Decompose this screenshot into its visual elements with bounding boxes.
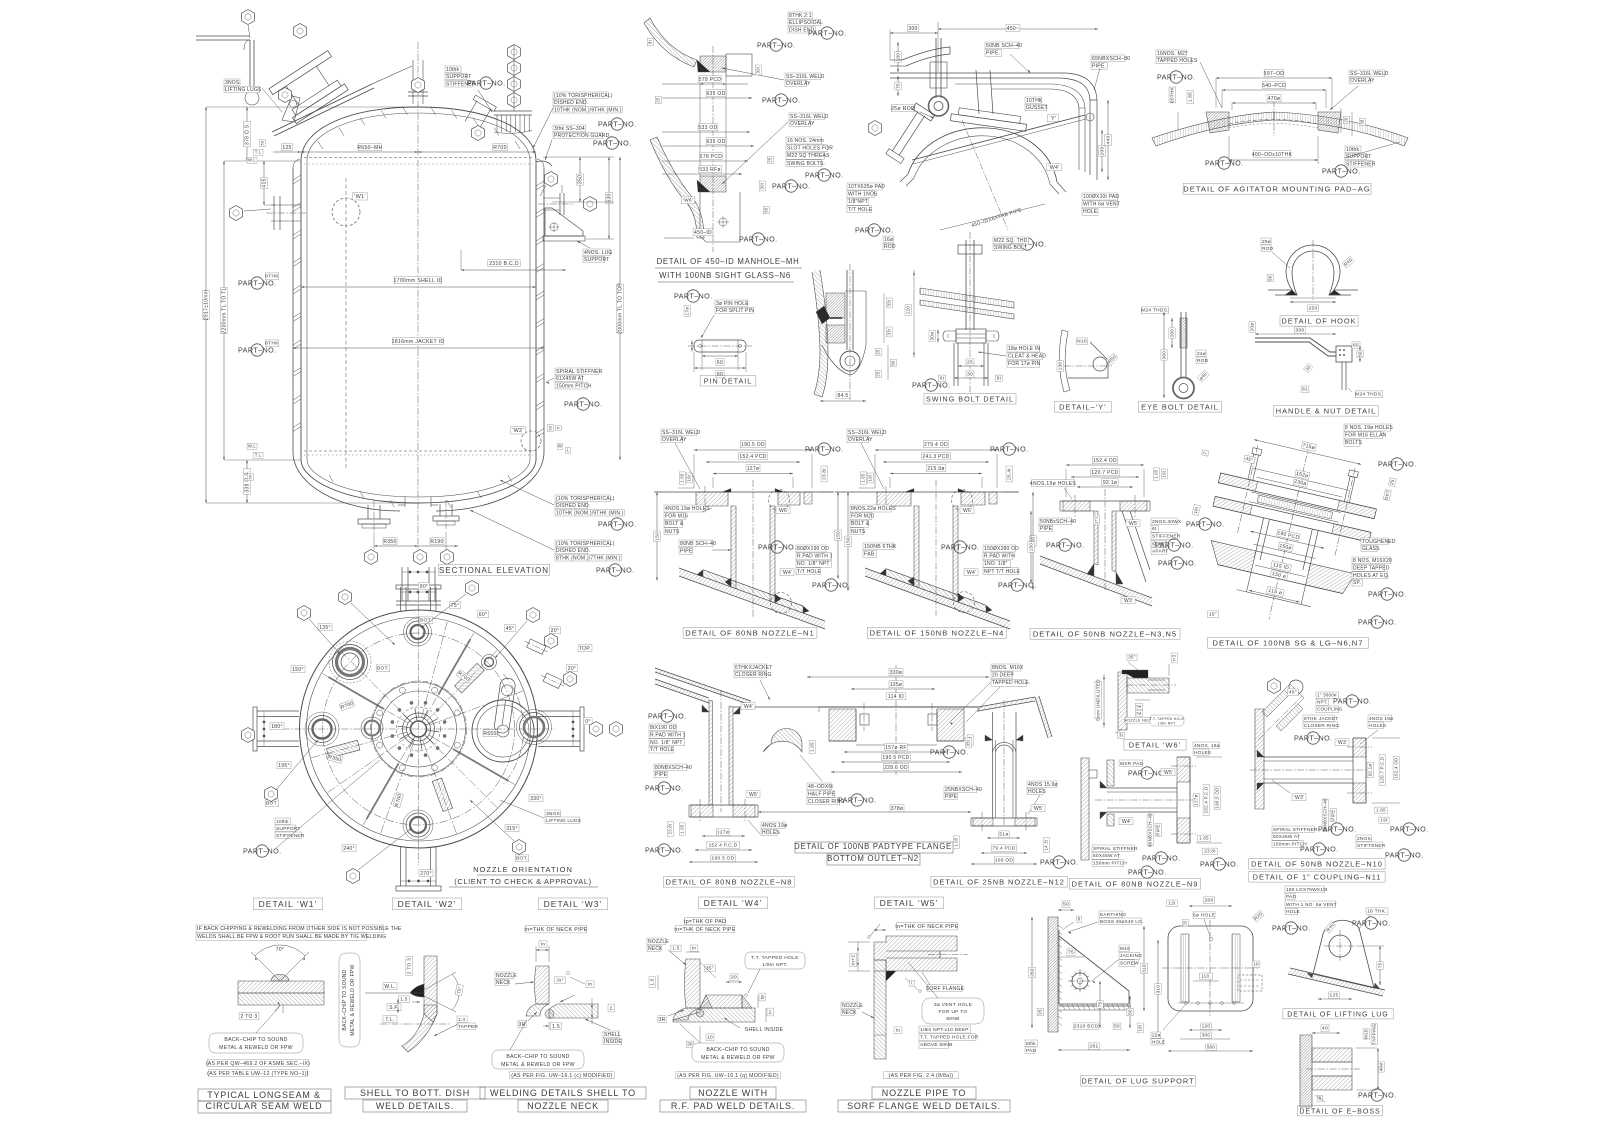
nozzle N4 detail bbox=[835, 429, 1037, 638]
tn box w5 bbox=[894, 1027, 902, 1034]
svg-text:190.5 OD: 190.5 OD bbox=[1215, 787, 1220, 808]
70 arc w2 bbox=[452, 974, 459, 1010]
svg-text:W.L: W.L bbox=[248, 444, 256, 449]
dim R700 top bbox=[493, 144, 507, 151]
svg-text:30t: 30t bbox=[760, 182, 765, 189]
svg-text:35°: 35° bbox=[1128, 655, 1136, 660]
svg-text:120.7 PCD: 120.7 PCD bbox=[1091, 470, 1118, 476]
svg-text:HANDLE & NUT DETAIL: HANDLE & NUT DETAIL bbox=[1276, 407, 1376, 416]
svg-text:Js″: Js″ bbox=[556, 978, 563, 984]
pipe walls hatched bbox=[914, 506, 919, 588]
svg-text:1:4: 1:4 bbox=[458, 1017, 465, 1023]
svg-text:DISHED END.: DISHED END. bbox=[554, 100, 588, 106]
eb wall bbox=[1300, 1035, 1312, 1107]
eb title bbox=[1138, 402, 1221, 413]
svg-text:540–PCD: 540–PCD bbox=[1262, 83, 1286, 89]
w6 title bbox=[1124, 740, 1186, 751]
cover plate outline bbox=[845, 290, 866, 292]
1.5 left w4 bbox=[649, 977, 656, 988]
svg-text:1.65: 1.65 bbox=[1199, 836, 1209, 841]
center hub circles bbox=[411, 721, 427, 737]
pad band bbox=[703, 570, 803, 606]
svg-text:80NBXSCH–40: 80NBXSCH–40 bbox=[1148, 813, 1153, 847]
svg-text:PIPE.: PIPE. bbox=[986, 51, 1000, 57]
svg-text:tp: tp bbox=[760, 995, 765, 1000]
beam top bbox=[400, 587, 402, 611]
svg-text:PART–NO.: PART–NO. bbox=[739, 235, 777, 244]
svg-text:PART–NO.: PART–NO. bbox=[243, 847, 281, 856]
svg-text:75: 75 bbox=[1068, 950, 1074, 956]
svg-text:OVERLAY: OVERLAY bbox=[786, 81, 811, 87]
n9 flange bbox=[1176, 782, 1178, 843]
w6 35 label bbox=[1127, 654, 1137, 660]
vessel top dished head bbox=[301, 107, 536, 161]
tp dim w4 bbox=[759, 993, 766, 1001]
svg-text:‘W6’: ‘W6’ bbox=[683, 198, 694, 204]
svg-text:tp=THK OF PAD: tp=THK OF PAD bbox=[684, 919, 726, 925]
svg-text:440: 440 bbox=[1106, 136, 1112, 145]
n1 pad note bbox=[796, 545, 826, 552]
nozzle N9 detail bbox=[1070, 742, 1239, 889]
n10 jacket wall bbox=[1255, 709, 1264, 809]
svg-text:1.65: 1.65 bbox=[1154, 469, 1159, 479]
jacket id dim bbox=[392, 338, 445, 345]
svg-text:R.PAD WITH: R.PAD WITH bbox=[984, 554, 1015, 560]
svg-text:W: W bbox=[558, 444, 562, 449]
n3 w5 label bbox=[1126, 520, 1140, 527]
sight glass SG LG detail bbox=[1155, 424, 1416, 648]
dim 350 right bbox=[579, 157, 581, 202]
svg-text:OVERLAY: OVERLAY bbox=[790, 121, 815, 127]
lsp 120 bbox=[1201, 1023, 1212, 1030]
W6 dashed circle bbox=[769, 490, 790, 511]
svg-text:PART–NO.: PART–NO. bbox=[838, 796, 876, 805]
svg-text:t=3: t=3 bbox=[1172, 654, 1177, 661]
svg-text:DEEP TAPPED: DEEP TAPPED bbox=[1353, 565, 1390, 571]
svg-text:LIFTING LUGS: LIFTING LUGS bbox=[546, 818, 581, 824]
svg-text:tn=THK OF NECK PIPE: tn=THK OF NECK PIPE bbox=[524, 927, 587, 933]
svg-text:R.PAD WITH 1: R.PAD WITH 1 bbox=[650, 732, 686, 738]
svg-text:8NOS.22ø HOLES: 8NOS.22ø HOLES bbox=[851, 506, 896, 512]
svg-text:8THK (NOM.)/7THK (MIN.): 8THK (NOM.)/7THK (MIN.) bbox=[556, 555, 621, 561]
degree labels bbox=[418, 583, 429, 590]
pin detail bbox=[674, 290, 756, 386]
svg-text:35°: 35° bbox=[706, 966, 714, 972]
svg-text:2000mm TL TO TOP: 2000mm TL TO TOP bbox=[618, 283, 624, 334]
davit hook circle bbox=[245, 91, 259, 105]
svg-text:281: 281 bbox=[1090, 1044, 1099, 1050]
1.5 label w2 bbox=[399, 996, 410, 1003]
W1 nozzle dashed circle bbox=[332, 198, 360, 226]
svg-text:HOLE: HOLE bbox=[1152, 1039, 1165, 1044]
ll weld tris bbox=[1307, 973, 1313, 978]
svg-text:tn: tn bbox=[588, 982, 593, 988]
bottom balloons bbox=[365, 550, 378, 565]
svg-text:92.1ø: 92.1ø bbox=[1103, 480, 1117, 486]
sg gasket lines bbox=[1251, 492, 1341, 513]
n3 shell slant bbox=[1040, 556, 1152, 598]
svg-text:‘W6’: ‘W6’ bbox=[778, 508, 789, 514]
sg top bolts bbox=[1248, 454, 1259, 480]
eb eye bbox=[1173, 378, 1194, 399]
svg-text:10THK (NOM.)/9THK (MIN.): 10THK (NOM.)/9THK (MIN.) bbox=[556, 510, 624, 516]
flange block w5 bbox=[874, 936, 957, 971]
vent hole note bbox=[922, 998, 984, 1024]
sg glass bbox=[1257, 495, 1333, 519]
shell plate w4 bbox=[673, 1008, 755, 1022]
svg-text:SS–316L WELD: SS–316L WELD bbox=[790, 114, 829, 120]
svg-text:6t: 6t bbox=[1152, 526, 1157, 532]
svg-text:110.: 110. bbox=[1201, 974, 1211, 979]
svg-text:20ø: 20ø bbox=[1250, 323, 1255, 332]
svg-text:‘W3’: ‘W3’ bbox=[1337, 740, 1348, 746]
dim 630 right bbox=[608, 157, 610, 239]
n10 holes note bbox=[1368, 715, 1392, 721]
svg-text:‘W5’: ‘W5’ bbox=[1163, 770, 1174, 776]
svg-text:1816mm JACKET ID: 1816mm JACKET ID bbox=[392, 339, 445, 345]
svg-text:SWING BOLT: SWING BOLT bbox=[994, 245, 1027, 251]
w6 3t label bbox=[1117, 732, 1124, 738]
svg-text:23.8t: 23.8t bbox=[1204, 849, 1216, 854]
tp tn legend w4 bbox=[684, 918, 726, 925]
shell plate w3 bbox=[549, 1004, 598, 1018]
svg-text:PART–NO.: PART–NO. bbox=[1157, 73, 1195, 82]
shell slant band bbox=[679, 568, 825, 621]
svg-text:R190: R190 bbox=[430, 539, 443, 545]
n9 title bbox=[1070, 879, 1201, 890]
n3 flange bbox=[1060, 500, 1150, 502]
vessel sectional elevation bbox=[196, 10, 636, 606]
n10 stiffener note bbox=[1356, 835, 1372, 841]
svg-text:T/T HOLE: T/T HOLE bbox=[650, 747, 674, 753]
ag center dash bbox=[1229, 120, 1318, 125]
n8 small dims bbox=[667, 822, 673, 837]
svg-text:3R: 3R bbox=[659, 1017, 666, 1023]
n12 35t bbox=[965, 738, 971, 748]
svg-text:150ØX280 OD: 150ØX280 OD bbox=[984, 546, 1019, 552]
svg-text:578 PCD: 578 PCD bbox=[700, 154, 722, 160]
svg-text:PART–NO.: PART–NO. bbox=[598, 120, 636, 129]
t dim w4 bbox=[767, 1008, 774, 1016]
svg-text:NOZZLE ORIENTATION: NOZZLE ORIENTATION bbox=[473, 865, 573, 874]
n10 pipe note rot bbox=[1322, 798, 1328, 832]
y labels bbox=[1077, 338, 1088, 345]
svg-text:50NBxSCH–40: 50NBxSCH–40 bbox=[1040, 519, 1076, 525]
n9 w4 label bbox=[1119, 818, 1133, 825]
svg-text:1/8”NPT: 1/8”NPT bbox=[848, 199, 868, 205]
bolt hole dashed lines bbox=[704, 486, 706, 511]
svg-text:SUPPORT: SUPPORT bbox=[1346, 154, 1371, 160]
svg-text:60°: 60° bbox=[479, 612, 487, 618]
svg-text:HOLES: HOLES bbox=[1194, 750, 1211, 756]
svg-text:BOLT &: BOLT & bbox=[851, 521, 870, 527]
svg-text:DETAIL OF AGITATOR MOUNTING PA: DETAIL OF AGITATOR MOUNTING PAD–AG bbox=[1183, 185, 1370, 194]
svg-text:SP.: SP. bbox=[1353, 580, 1361, 586]
svg-text:1.5: 1.5 bbox=[552, 1024, 560, 1030]
svg-text:80NBXSCH–40: 80NBXSCH–40 bbox=[655, 765, 692, 771]
detail W5 title bbox=[874, 897, 943, 909]
svg-text:PIPE: PIPE bbox=[680, 549, 693, 555]
svg-text:ROD: ROD bbox=[1197, 358, 1209, 364]
vessel shell walls bbox=[300, 161, 302, 460]
svg-text:1/8in NPT.: 1/8in NPT. bbox=[1158, 722, 1177, 726]
dim 378 OS bbox=[246, 107, 248, 161]
n2 centerline bbox=[895, 665, 897, 775]
dim R190 bottom bbox=[430, 538, 444, 545]
svg-text:LIFTING LUGS: LIFTING LUGS bbox=[225, 87, 262, 93]
n12 pipe note bbox=[944, 786, 977, 793]
svg-text:65NBXSCH–80: 65NBXSCH–80 bbox=[1092, 56, 1130, 62]
svg-text:DETAIL OF E–BOSS: DETAIL OF E–BOSS bbox=[1299, 1109, 1380, 1116]
svg-text:NECK: NECK bbox=[842, 1010, 857, 1016]
svg-text:SLOT HOLES FOR: SLOT HOLES FOR bbox=[787, 146, 833, 152]
jacket walls bbox=[292, 168, 294, 452]
svg-text:10thk: 10thk bbox=[446, 67, 460, 73]
lsp dims bbox=[1167, 900, 1178, 907]
svg-text:25: 25 bbox=[967, 360, 973, 366]
top liquid level line bbox=[304, 157, 533, 159]
svg-text:0°: 0° bbox=[585, 719, 590, 725]
svg-text:DETAIL OF 80NB NOZZLE–N8: DETAIL OF 80NB NOZZLE–N8 bbox=[666, 878, 793, 887]
n2 jacket band left bbox=[655, 668, 751, 701]
n10 pipe bbox=[1264, 756, 1353, 758]
svg-text:330°: 330° bbox=[530, 796, 542, 802]
25 rod note bbox=[891, 105, 915, 112]
n10 titles bbox=[1249, 859, 1385, 870]
n8 half pipe closer bbox=[763, 729, 802, 753]
svg-text:2917±10mm: 2917±10mm bbox=[204, 290, 210, 320]
n10 w3b bbox=[1292, 794, 1306, 801]
svg-text:19t: 19t bbox=[687, 474, 692, 481]
n2 rf face bbox=[856, 744, 937, 746]
n2 bolt squares bbox=[860, 714, 869, 725]
ll title bbox=[1283, 1009, 1393, 1019]
svg-text:61X45W AT: 61X45W AT bbox=[556, 376, 584, 382]
gusset note bbox=[1025, 97, 1041, 104]
n8 holes note bbox=[761, 822, 785, 829]
ls 75b bbox=[1099, 981, 1101, 1028]
sb dims bbox=[958, 365, 984, 367]
svg-text:BOLTS: BOLTS bbox=[1345, 440, 1362, 446]
lug balloon1 bbox=[545, 172, 558, 187]
n8 rpad note bbox=[649, 724, 676, 731]
svg-text:tn: tn bbox=[896, 1028, 901, 1034]
ls base plate bbox=[1059, 1005, 1131, 1007]
pipe walls hatched bbox=[731, 506, 736, 589]
dim top w5 bbox=[874, 929, 886, 931]
horizontal pipe run bbox=[890, 72, 1065, 74]
svg-text:400–ODx10THK: 400–ODx10THK bbox=[1252, 152, 1293, 158]
len dim 150 right bbox=[847, 492, 849, 591]
shell slant band bbox=[865, 568, 1010, 621]
svg-text:190.5 PCD: 190.5 PCD bbox=[882, 755, 909, 761]
svg-text:PIPE: PIPE bbox=[1331, 809, 1336, 820]
ag support stiffener note bbox=[1345, 146, 1361, 153]
svg-text:40: 40 bbox=[1322, 1026, 1328, 1032]
svg-text:415: 415 bbox=[262, 178, 268, 187]
agitator shaft dashed line bbox=[345, 178, 347, 470]
dim R350 bottom bbox=[383, 538, 397, 545]
svg-text:M24 THDS.: M24 THDS. bbox=[1141, 308, 1169, 314]
svg-text:WITH 1NOS: WITH 1NOS bbox=[848, 192, 878, 198]
hook detail bbox=[1261, 238, 1358, 326]
orientation outer circles bbox=[300, 610, 538, 848]
svg-text:1.5: 1.5 bbox=[672, 946, 679, 951]
n1 pipe note bbox=[679, 540, 713, 547]
n12 holes note bbox=[1027, 781, 1057, 788]
n12 flange bbox=[971, 817, 1037, 819]
WL line bbox=[365, 992, 424, 994]
svg-text:PIPE: PIPE bbox=[1156, 824, 1161, 835]
protection guard note bbox=[553, 125, 586, 132]
svg-text:PART–NO.: PART–NO. bbox=[1294, 734, 1332, 743]
svg-text:70°: 70° bbox=[276, 947, 284, 953]
weld triangles bbox=[725, 578, 731, 587]
n1 w6 label bbox=[776, 507, 790, 514]
svg-text:4NOS 19ø: 4NOS 19ø bbox=[762, 823, 787, 829]
svg-text:SUPPORT: SUPPORT bbox=[584, 257, 609, 263]
8thk label2 bbox=[265, 340, 279, 347]
svg-text:8 NOS. 19ø HOLES: 8 NOS. 19ø HOLES bbox=[1345, 425, 1393, 431]
hook eye bbox=[929, 96, 949, 116]
W6 dashed circle bbox=[952, 490, 973, 511]
t= label w3 bbox=[608, 1004, 615, 1012]
right shoulder nozzle bbox=[462, 95, 497, 131]
n9 spiral note bbox=[1092, 845, 1134, 852]
dim 2200 TL TL bbox=[223, 161, 225, 460]
svg-text:DETAIL ‘W5’: DETAIL ‘W5’ bbox=[880, 898, 939, 908]
left nozzle balloon bbox=[230, 206, 243, 221]
svg-text:200: 200 bbox=[1169, 329, 1174, 337]
WL TL labels bottom left bbox=[247, 443, 257, 449]
svg-text:25: 25 bbox=[876, 371, 881, 377]
n12 tapped note bbox=[991, 664, 1021, 671]
svg-text:COUPLING: COUPLING bbox=[1317, 707, 1343, 712]
svg-text:WITH 100NB SIGHT GLASS–N6: WITH 100NB SIGHT GLASS–N6 bbox=[659, 271, 791, 280]
orientation centerlines bbox=[283, 728, 555, 730]
right side nozzle stub bbox=[543, 197, 560, 199]
svg-text:75°: 75° bbox=[451, 603, 459, 609]
ls 2310 bbox=[1074, 1023, 1099, 1030]
n4 weld overlay note bbox=[847, 429, 883, 436]
svg-text:DISHED END.: DISHED END. bbox=[556, 503, 590, 509]
tn dim w4 bbox=[690, 945, 698, 952]
svg-text:PART–NO.: PART–NO. bbox=[805, 171, 843, 180]
svg-text:8tXR.PAD: 8tXR.PAD bbox=[1120, 761, 1143, 767]
svg-text:BOT.: BOT. bbox=[377, 666, 389, 672]
mh dim lines top bbox=[662, 83, 748, 85]
w6 black weld bbox=[1122, 670, 1148, 678]
sight glass tube bbox=[884, 103, 935, 164]
nozzle centerline bbox=[752, 480, 754, 617]
svg-text:BOLT &: BOLT & bbox=[665, 521, 684, 527]
od dim bbox=[875, 449, 997, 451]
svg-text:‘W3’: ‘W3’ bbox=[1294, 795, 1305, 801]
svg-text:PART–NO.: PART–NO. bbox=[1300, 845, 1338, 854]
ag pad right bbox=[1318, 112, 1341, 133]
eb title bbox=[1298, 1106, 1383, 1116]
lsp right stub bbox=[1238, 975, 1262, 991]
sg 7 16t 25 bbox=[1202, 450, 1209, 456]
svg-text:NOZZLE WITH: NOZZLE WITH bbox=[698, 1088, 768, 1098]
svg-text:PART–NO.: PART–NO. bbox=[645, 846, 683, 855]
svg-text:25ø: 25ø bbox=[1262, 239, 1271, 245]
svg-text:25.4t: 25.4t bbox=[1007, 468, 1012, 480]
svg-text:BOT.: BOT. bbox=[516, 856, 528, 862]
bracket target mark bbox=[550, 223, 558, 231]
Y ref label bbox=[1047, 115, 1058, 122]
cover bolt bbox=[846, 270, 848, 350]
nozzle N1 detail bbox=[654, 429, 852, 638]
svg-text:M22 SQ THREAS: M22 SQ THREAS bbox=[787, 153, 830, 159]
ls 75a bbox=[1067, 949, 1075, 956]
n2 dims top bbox=[807, 676, 989, 678]
svg-text:DETAIL OF 450–ID MANHOLE–MH: DETAIL OF 450–ID MANHOLE–MH bbox=[657, 257, 800, 266]
svg-text:3NOS.: 3NOS. bbox=[225, 80, 241, 86]
dished head tilted bbox=[908, 128, 1057, 182]
dim 125 top bbox=[281, 144, 292, 151]
beam bottom bbox=[400, 847, 402, 886]
svg-text:‘W6’: ‘W6’ bbox=[962, 508, 973, 514]
backchip vertical note bbox=[339, 953, 360, 1047]
ag 1.65 dim bbox=[1187, 90, 1194, 103]
svg-text:200: 200 bbox=[1100, 147, 1106, 156]
svg-text:N10: N10 bbox=[1077, 339, 1087, 345]
manhole cover swing bolt section bbox=[812, 264, 915, 402]
svg-text:25ø ROD: 25ø ROD bbox=[891, 106, 915, 112]
dim 75 vert bbox=[897, 76, 899, 96]
svg-text:1.65: 1.65 bbox=[1188, 92, 1193, 102]
svg-text:51ø: 51ø bbox=[999, 832, 1008, 838]
svg-text:8 NOS. M16X20: 8 NOS. M16X20 bbox=[1353, 558, 1392, 564]
small flange left of hub bbox=[365, 721, 380, 736]
neck plate w5 bbox=[874, 960, 886, 1059]
R labels orientation bbox=[339, 700, 355, 711]
ag title bbox=[1183, 183, 1371, 194]
asper longseam bbox=[206, 1060, 310, 1067]
lsp 300 bbox=[1201, 1032, 1212, 1039]
svg-text:50: 50 bbox=[1127, 1009, 1132, 1015]
n12 half pipe bbox=[996, 745, 1014, 752]
handle stem bbox=[1341, 362, 1343, 390]
svg-text:PART–NO.: PART–NO. bbox=[1040, 858, 1078, 867]
dim 415 bbox=[263, 161, 265, 205]
hook omega shape bbox=[1268, 245, 1358, 290]
svg-text:260: 260 bbox=[1030, 968, 1035, 977]
svg-text:DETAIL–‘Y’: DETAIL–‘Y’ bbox=[1059, 403, 1107, 412]
svg-text:30ø: 30ø bbox=[930, 332, 935, 341]
svg-text:127ø: 127ø bbox=[1194, 794, 1199, 805]
eb boss bbox=[1312, 1048, 1352, 1062]
svg-text:NOZZLE: NOZZLE bbox=[648, 939, 669, 945]
small thk dims bbox=[860, 472, 866, 484]
svg-text:OVERLAY: OVERLAY bbox=[662, 437, 687, 443]
svg-text:50: 50 bbox=[1268, 275, 1273, 281]
svg-text:30: 30 bbox=[967, 372, 973, 378]
svg-text:PART–NO.: PART–NO. bbox=[1128, 769, 1166, 778]
weld junction w3 bbox=[545, 1010, 554, 1019]
svg-text:‘W4’: ‘W4’ bbox=[782, 570, 793, 576]
svg-text:‘W4’: ‘W4’ bbox=[743, 704, 754, 710]
n8 flange bbox=[689, 804, 758, 806]
svg-text:T.T. TAPPED HOLE FOR: T.T. TAPPED HOLE FOR bbox=[920, 1035, 979, 1041]
ls 50b bbox=[1129, 996, 1131, 1028]
W2 dashed circle bbox=[521, 431, 541, 451]
neck plate w3 bbox=[535, 966, 550, 1004]
typical longseam weld detail bbox=[196, 925, 402, 1113]
ls 281 bbox=[1089, 1043, 1100, 1050]
agitator long rod bbox=[912, 115, 1085, 160]
